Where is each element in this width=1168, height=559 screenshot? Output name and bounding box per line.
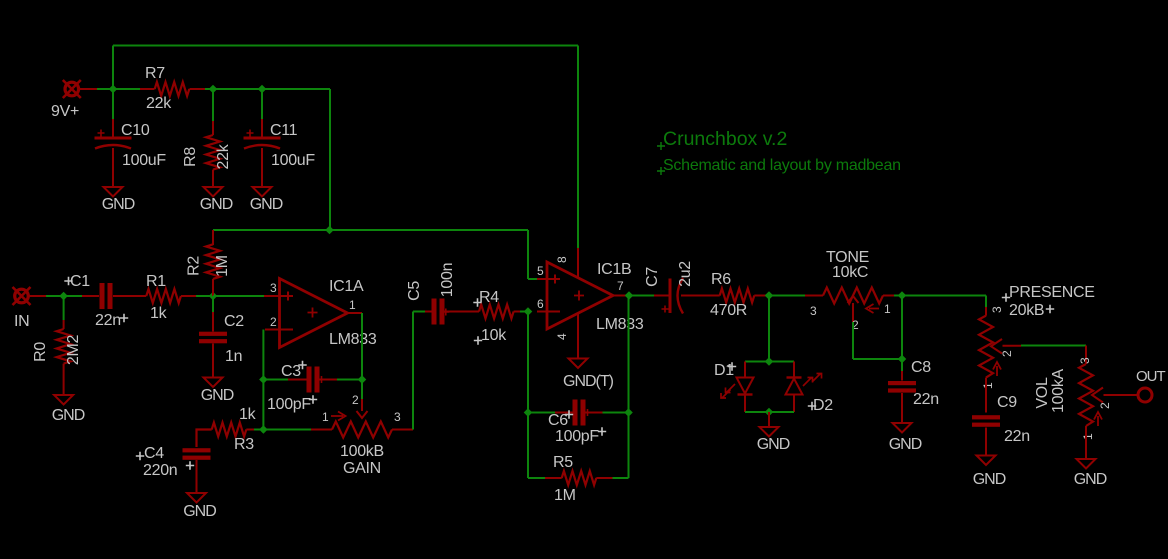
ground under C10 xyxy=(104,187,123,197)
svg-text:C4: C4 xyxy=(144,445,164,462)
svg-text:1: 1 xyxy=(884,302,891,316)
svg-text:22n: 22n xyxy=(1004,428,1030,445)
junction diode top xyxy=(765,357,774,366)
ground under VOL xyxy=(1085,426,1087,459)
svg-text:2: 2 xyxy=(1000,350,1014,357)
svg-text:2: 2 xyxy=(270,315,277,329)
wire TONE to PRESENCE xyxy=(902,295,986,297)
svg-text:5: 5 xyxy=(537,264,544,278)
wire PRESENCE wiper to VOL xyxy=(1021,345,1086,347)
svg-text:1M: 1M xyxy=(554,487,576,504)
svg-text:C7: C7 xyxy=(644,267,661,287)
svg-text:Crunchbox v.2: Crunchbox v.2 xyxy=(663,128,787,150)
wire IC1B output xyxy=(613,295,626,297)
svg-text:C5: C5 xyxy=(406,281,423,301)
junction C3 left xyxy=(259,375,268,384)
op-amp IC1A LM833 xyxy=(280,279,348,348)
svg-text:1k: 1k xyxy=(150,305,168,322)
wire down to diodes xyxy=(768,296,770,362)
wire bias to IC1B pin5 xyxy=(527,230,529,279)
svg-text:C10: C10 xyxy=(121,122,150,139)
svg-text:1k: 1k xyxy=(239,406,257,423)
wire node to IC1A pin3 xyxy=(213,295,264,297)
LED D1 xyxy=(744,362,746,378)
junction bias at C11 xyxy=(258,85,267,94)
potentiometer PRESENCE 20kB xyxy=(985,307,987,316)
svg-text:GAIN: GAIN xyxy=(343,460,381,477)
junction C6 left xyxy=(524,408,533,417)
IN pad xyxy=(13,287,31,305)
svg-text:1: 1 xyxy=(1081,433,1095,440)
svg-text:GND(T): GND(T) xyxy=(563,373,614,390)
resistor R5 1M xyxy=(528,477,545,479)
junction bias y230 xyxy=(325,226,334,235)
wire TONE wiper down xyxy=(852,322,854,359)
ground under C8 xyxy=(893,423,912,433)
junction C3 right / output node xyxy=(358,375,367,384)
svg-text:R8: R8 xyxy=(182,147,199,167)
svg-text:3: 3 xyxy=(810,304,817,318)
svg-text:GND: GND xyxy=(889,436,922,453)
capacitor C2 1n xyxy=(212,296,214,312)
capacitor C10 100uF xyxy=(112,89,114,119)
svg-text:8: 8 xyxy=(555,256,569,263)
wire bias node horizontal xyxy=(205,88,330,90)
svg-text:100n: 100n xyxy=(439,263,456,297)
svg-text:GND: GND xyxy=(102,196,135,213)
op-amp IC1B LM833 xyxy=(547,262,613,329)
svg-text:LM833: LM833 xyxy=(596,316,644,333)
ground under diodes xyxy=(768,412,770,427)
9V+ supply pad xyxy=(63,80,81,98)
svg-text:2u2: 2u2 xyxy=(677,261,694,287)
junction input node xyxy=(59,292,68,301)
svg-text:4: 4 xyxy=(555,333,569,340)
svg-text:GND: GND xyxy=(250,196,283,213)
wire feedback right vertical xyxy=(628,296,630,479)
junction TONE pin1 xyxy=(898,291,907,300)
resistor R4 10k xyxy=(479,305,514,319)
svg-text:IN: IN xyxy=(14,313,29,330)
wire diode bottom rail xyxy=(745,411,794,413)
svg-text:100uF: 100uF xyxy=(271,152,315,169)
svg-text:R0: R0 xyxy=(32,342,49,362)
resistor R3 1k xyxy=(254,429,263,431)
junction diode bottom xyxy=(765,408,774,417)
svg-text:R3: R3 xyxy=(234,436,254,453)
capacitor C5 100n xyxy=(425,311,432,313)
svg-text:9V+: 9V+ xyxy=(51,103,79,120)
wire IC1A output down xyxy=(348,312,363,314)
ground under R8 xyxy=(204,187,223,197)
resistor R2 1M xyxy=(212,230,214,245)
OUT pad xyxy=(1138,388,1152,402)
svg-text:100uF: 100uF xyxy=(122,152,166,169)
svg-text:1M: 1M xyxy=(214,255,231,277)
svg-text:C1: C1 xyxy=(70,273,90,290)
svg-text:2: 2 xyxy=(1098,402,1112,409)
wire to TONE xyxy=(769,295,805,297)
potentiometer VOL 100kA xyxy=(1085,346,1087,365)
svg-text:100pF: 100pF xyxy=(267,396,311,413)
resistor R8 22k xyxy=(212,89,214,121)
pin 4 power xyxy=(577,313,579,358)
svg-text:R4: R4 xyxy=(479,289,499,306)
junction R1/R2/C2 node xyxy=(209,292,218,301)
svg-text:C3: C3 xyxy=(281,363,301,380)
node 9V rail: top wire to IC1B pin8 xyxy=(112,46,114,90)
svg-text:C9: C9 xyxy=(997,394,1017,411)
junction R6 output xyxy=(765,291,774,300)
svg-text:2: 2 xyxy=(352,393,359,407)
wire feedback left vertical xyxy=(527,312,529,479)
svg-text:C2: C2 xyxy=(224,313,244,330)
junction C6 right xyxy=(624,408,633,417)
wire junction to R7 xyxy=(113,88,140,90)
svg-text:220n: 220n xyxy=(143,462,177,479)
svg-text:LM833: LM833 xyxy=(329,331,377,348)
svg-text:1: 1 xyxy=(981,382,995,389)
svg-text:GND: GND xyxy=(973,471,1006,488)
ground under R0 xyxy=(54,395,73,405)
svg-text:3: 3 xyxy=(394,410,401,424)
junction IC1B pin6 node xyxy=(524,307,533,316)
wire GAIN pin3 up to C5 xyxy=(412,312,414,430)
capacitor C9 22n xyxy=(985,378,987,413)
capacitor C1 22n xyxy=(82,295,99,297)
resistor R0 2M2 xyxy=(63,296,65,320)
svg-text:20kB: 20kB xyxy=(1009,302,1044,319)
junction feedback at R3 xyxy=(259,425,268,434)
svg-text:R6: R6 xyxy=(711,271,731,288)
svg-text:10k: 10k xyxy=(481,327,507,344)
ground GND(T) at IC1B pin4 xyxy=(569,359,588,369)
resistor R1 1k xyxy=(146,289,181,303)
ground under C11 xyxy=(253,187,272,197)
svg-text:R2: R2 xyxy=(186,256,203,276)
svg-text:R1: R1 xyxy=(146,273,166,290)
svg-text:3: 3 xyxy=(990,306,1004,313)
svg-text:R7: R7 xyxy=(145,65,165,82)
junction bias at R8 xyxy=(209,85,218,94)
wire bias line y230 xyxy=(213,229,528,231)
svg-text:2M2: 2M2 xyxy=(65,334,82,365)
potentiometer GAIN 100kB xyxy=(263,429,311,431)
junction TONE wiper/C8 xyxy=(898,355,907,364)
wire TONE node vertical xyxy=(901,296,903,372)
svg-text:IC1B: IC1B xyxy=(597,261,631,278)
wire IN to junction xyxy=(29,295,46,297)
ground under C4 xyxy=(187,493,206,503)
svg-text:GND: GND xyxy=(52,407,85,424)
LED D2 xyxy=(793,362,795,378)
ground under C9 xyxy=(977,456,996,466)
svg-text:22k: 22k xyxy=(146,95,172,112)
svg-text:1: 1 xyxy=(349,298,356,312)
potentiometer TONE 10kC xyxy=(805,295,823,297)
svg-text:VOL: VOL xyxy=(1034,377,1051,409)
resistor R7 22k xyxy=(140,88,155,90)
wire diode top rail xyxy=(745,361,794,363)
svg-text:Schematic and layout by madbea: Schematic and layout by madbean xyxy=(663,157,901,174)
svg-text:100kB: 100kB xyxy=(340,443,384,460)
junction 9V at C10 xyxy=(109,85,118,94)
svg-text:6: 6 xyxy=(537,297,544,311)
svg-text:GND: GND xyxy=(201,387,234,404)
resistor R6 470R xyxy=(681,295,720,297)
capacitor C7 2u2 xyxy=(629,295,654,297)
svg-text:C11: C11 xyxy=(270,122,298,139)
svg-text:GND: GND xyxy=(757,436,790,453)
svg-text:C8: C8 xyxy=(911,359,931,376)
svg-text:3: 3 xyxy=(1078,357,1092,364)
svg-text:GND: GND xyxy=(1074,471,1107,488)
ground under C2 xyxy=(204,378,223,388)
svg-text:7: 7 xyxy=(617,279,624,293)
svg-text:100kA: 100kA xyxy=(1050,368,1067,412)
capacitor C8 22n xyxy=(901,371,903,381)
svg-text:IC1A: IC1A xyxy=(329,278,364,295)
svg-text:GND: GND xyxy=(183,503,216,520)
svg-text:1: 1 xyxy=(322,410,329,424)
wire 9V+ to junction xyxy=(79,88,97,90)
svg-text:100pF: 100pF xyxy=(555,428,599,445)
svg-text:10kC: 10kC xyxy=(832,264,868,281)
svg-text:R5: R5 xyxy=(553,454,573,471)
svg-text:470R: 470R xyxy=(710,302,747,319)
wire inverting input vertical xyxy=(262,330,264,430)
pin 8 power xyxy=(577,248,579,278)
capacitor C11 100uF xyxy=(261,89,263,119)
svg-text:22n: 22n xyxy=(913,391,939,408)
svg-text:22n: 22n xyxy=(95,312,121,329)
svg-text:3: 3 xyxy=(270,281,277,295)
wire bias node down right side xyxy=(329,89,331,230)
junction IC1B output xyxy=(625,291,634,300)
svg-text:22k: 22k xyxy=(215,143,232,169)
capacitor C3 100pF xyxy=(263,379,288,381)
svg-text:1n: 1n xyxy=(225,348,242,365)
capacitor C6 100pF xyxy=(528,412,555,414)
svg-text:PRESENCE: PRESENCE xyxy=(1009,284,1095,301)
svg-text:GND: GND xyxy=(200,196,233,213)
capacitor C4 220n xyxy=(183,448,211,460)
svg-text:OUT: OUT xyxy=(1136,368,1166,385)
